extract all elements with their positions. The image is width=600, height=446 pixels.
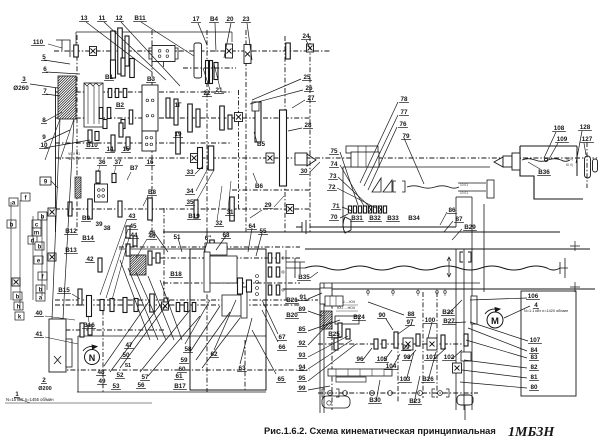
leader B35 xyxy=(310,272,318,278)
svg-text:26: 26 xyxy=(305,85,313,92)
output capsule gear xyxy=(487,180,494,198)
svg-text:40: 40 xyxy=(35,310,43,317)
pulley D260 hatched xyxy=(58,76,76,119)
tailstock body profile xyxy=(520,145,577,147)
svg-text:56: 56 xyxy=(137,382,145,389)
svg-text:52: 52 xyxy=(116,372,124,379)
svg-text:13: 13 xyxy=(80,15,88,22)
svg-text:9: 9 xyxy=(42,134,46,141)
svg-text:B15: B15 xyxy=(58,287,70,294)
apron vertical shaft 2 xyxy=(397,334,399,402)
leadscrew wavy line xyxy=(305,266,560,270)
gear 24 on vertical shaft xyxy=(286,43,291,59)
svg-text:B9: B9 xyxy=(82,215,91,222)
svg-text:M: M xyxy=(491,316,499,327)
svg-text:48: 48 xyxy=(97,369,105,376)
svg-text:20: 20 xyxy=(226,16,234,23)
shaft V centerline xyxy=(232,189,310,191)
gear cluster B1 mid bars xyxy=(108,89,112,98)
shaft VII gear 2 xyxy=(88,199,93,219)
gear block 11-12 xyxy=(111,31,116,71)
svg-text:88: 88 xyxy=(407,311,415,318)
svg-text:28: 28 xyxy=(304,122,312,129)
svg-text:47: 47 xyxy=(125,342,133,349)
apron bottom shaft centerline xyxy=(318,392,478,394)
leader B36 xyxy=(528,162,540,169)
svg-text:49: 49 xyxy=(98,378,106,385)
svg-text:50: 50 xyxy=(122,352,130,359)
feed gearbox output line xyxy=(305,248,590,250)
svg-text:25: 25 xyxy=(303,74,311,81)
shaft VIII bearing xyxy=(453,363,462,373)
svg-text:75: 75 xyxy=(330,148,338,155)
svg-text:12: 12 xyxy=(115,15,123,22)
drum 68 xyxy=(205,243,227,255)
svg-text:32: 32 xyxy=(215,220,223,227)
svg-text:106: 106 xyxy=(528,293,539,300)
vertical shaft VIII upper xyxy=(471,197,473,410)
svg-text:57: 57 xyxy=(141,374,149,381)
leader 30 xyxy=(310,162,320,172)
svg-text:6: 6 xyxy=(43,66,47,73)
gear on shaft I left xyxy=(74,45,79,57)
section symbols on feed rod xyxy=(366,290,369,293)
apron small gear row xyxy=(374,339,378,349)
svg-text:10 01: 10 01 xyxy=(460,191,468,195)
svg-text:85: 85 xyxy=(298,326,306,333)
box top leaders xyxy=(155,234,168,252)
bearing top right xyxy=(307,44,314,52)
shaft I centerline xyxy=(54,50,330,52)
countershaft pulley xyxy=(346,146,378,153)
svg-text:35: 35 xyxy=(186,199,194,206)
apron gear cluster 90 97 xyxy=(338,323,342,337)
svg-text:B21: B21 xyxy=(286,297,298,304)
svg-text:104: 104 xyxy=(386,363,397,370)
feed gearbox housing xyxy=(343,167,490,227)
shaft III gear block xyxy=(188,104,193,132)
svg-text:102: 102 xyxy=(444,354,455,361)
apron bottom jack left xyxy=(322,396,350,408)
leader 33 34 35 xyxy=(195,166,203,174)
svg-text:92: 92 xyxy=(298,340,306,347)
svg-text:15: 15 xyxy=(122,146,130,153)
leader 86 87 B29 xyxy=(440,212,447,225)
shaft VII gear 6 xyxy=(230,197,235,221)
svg-text:98: 98 xyxy=(403,354,411,361)
shaft VII gear 1 xyxy=(68,202,72,216)
svg-text:100: 100 xyxy=(425,317,436,324)
svg-text:14: 14 xyxy=(106,146,114,153)
svg-text:B29: B29 xyxy=(464,224,476,231)
svg-text:99: 99 xyxy=(298,385,306,392)
coupling brackets xyxy=(393,181,405,192)
belt lines xyxy=(52,119,60,319)
selector table vertical lines xyxy=(10,202,12,300)
shaft VII gear 5 xyxy=(194,200,198,218)
feed motor circle xyxy=(487,312,503,328)
apron worm 89 xyxy=(320,288,332,304)
svg-text:3: 3 xyxy=(22,76,26,83)
svg-text:99: 99 xyxy=(402,344,410,351)
line to leadscrew xyxy=(286,261,305,263)
norton wavy shaft xyxy=(407,186,459,188)
svg-text:1Г: 1Г xyxy=(174,102,182,109)
leadscrew right end bracket xyxy=(560,258,568,278)
headstock housing top xyxy=(76,31,232,33)
svg-text:71: 71 xyxy=(332,203,340,210)
svg-text:109: 109 xyxy=(557,136,568,143)
svg-text:36: 36 xyxy=(98,159,106,166)
svg-text:70: 70 xyxy=(330,214,338,221)
clutch B5 sleeve xyxy=(255,102,261,142)
shaft II centerline xyxy=(55,91,232,93)
gear B2 xyxy=(119,123,123,137)
svg-text:B17: B17 xyxy=(174,383,186,390)
svg-text:10: 10 xyxy=(40,142,48,149)
svg-text:29: 29 xyxy=(264,202,272,209)
worm on vertical shaft xyxy=(75,177,81,198)
drum 63 lower xyxy=(222,295,245,316)
lever 70 xyxy=(343,217,351,233)
svg-text:45: 45 xyxy=(129,223,137,230)
bracket 110 xyxy=(56,40,70,57)
svg-text:B14: B14 xyxy=(82,235,94,242)
spindle front bearing xyxy=(266,153,274,163)
vertical shaft x284 xyxy=(284,36,286,232)
svg-text:2: 2 xyxy=(42,377,46,384)
gear cluster B14 B15 xyxy=(78,289,82,305)
svg-text:d: d xyxy=(31,239,35,245)
svg-text:41: 41 xyxy=(35,331,43,338)
svg-text:33: 33 xyxy=(186,169,194,176)
svg-text:58: 58 xyxy=(184,346,192,353)
svg-text:80: 80 xyxy=(530,384,538,391)
svg-text:110: 110 xyxy=(33,39,44,46)
svg-text:B2: B2 xyxy=(116,102,125,109)
svg-text:B20: B20 xyxy=(286,312,298,319)
leader lines from top labels xyxy=(86,22,152,72)
spindle VI centerline xyxy=(55,157,597,159)
lower shaft B15 centerline xyxy=(55,299,318,301)
svg-text:95: 95 xyxy=(298,375,306,382)
svg-text:128: 128 xyxy=(580,124,591,131)
lower shaft centerline mid xyxy=(150,257,300,259)
svg-text:B16: B16 xyxy=(83,322,95,329)
drum shaft centerline xyxy=(163,282,300,284)
gear train lower shaft xyxy=(60,369,310,371)
svg-text:93: 93 xyxy=(298,352,306,359)
svg-text:103: 103 xyxy=(400,376,411,383)
svg-text:97: 97 xyxy=(406,319,414,326)
gear train housing box xyxy=(190,249,266,390)
svg-text:Ø260: Ø260 xyxy=(13,85,29,92)
vertical shaft VIII lower xyxy=(455,249,457,410)
box top line xyxy=(119,248,266,250)
drum 62 upper xyxy=(204,252,210,292)
svg-text:B5: B5 xyxy=(257,141,266,148)
svg-text:B6: B6 xyxy=(255,183,264,190)
svg-text:Рис.1.6.2. Схема кинематическа: Рис.1.6.2. Схема кинематическая принципи… xyxy=(264,426,496,436)
svg-text:64: 64 xyxy=(248,223,256,230)
svg-text:51: 51 xyxy=(173,234,181,241)
leader 25 26 27 28 xyxy=(252,79,301,100)
rack bar xyxy=(328,369,392,376)
shaft VII centerline xyxy=(55,208,310,210)
leader lines 21 22 xyxy=(203,68,210,90)
gear cluster B1 top bars xyxy=(111,60,116,78)
label 110 leader xyxy=(48,44,62,48)
svg-text:4: 4 xyxy=(534,302,538,309)
svg-text:Ч0 0 01: Ч0 0 01 xyxy=(68,157,80,161)
apron mid shaft centerline xyxy=(318,343,470,345)
electromagnetic clutch B11 xyxy=(152,46,175,62)
clutch 16 with holes xyxy=(142,131,156,151)
gear 54 xyxy=(210,240,215,254)
boxed 9 selector xyxy=(40,177,51,185)
gears right of B3 xyxy=(166,98,170,118)
gear cluster B2 lower bars xyxy=(99,108,103,119)
spindle large gear xyxy=(280,110,287,186)
lower-left vertical shaft 2 xyxy=(102,300,104,392)
svg-text:23: 23 xyxy=(242,16,250,23)
apron lower gears xyxy=(328,391,333,396)
svg-text:43: 43 xyxy=(128,213,136,220)
svg-text:89: 89 xyxy=(298,306,306,313)
svg-text:46: 46 xyxy=(148,233,156,240)
vertical shaft a xyxy=(76,35,78,232)
svg-text:65: 65 xyxy=(277,376,285,383)
pulley D200 box xyxy=(49,319,66,372)
shaft VII gear 4 xyxy=(148,198,153,220)
apron bottom jack right xyxy=(457,395,473,405)
svg-text:11: 11 xyxy=(99,15,106,22)
bearing 20 xyxy=(226,44,233,58)
gears right of drum 63 xyxy=(238,278,243,294)
lower-left vertical shaft xyxy=(206,232,208,392)
selector lever table xyxy=(9,198,18,206)
svg-text:B1: B1 xyxy=(105,74,114,81)
shaft VIII gear mid xyxy=(471,296,477,324)
svg-text:B26: B26 xyxy=(422,376,434,383)
svg-text:73: 73 xyxy=(329,173,337,180)
svg-text:21: 21 xyxy=(215,87,223,94)
svg-text:B19: B19 xyxy=(188,213,200,220)
leader fan lower left xyxy=(120,260,150,340)
svg-text:19: 19 xyxy=(174,131,182,138)
svg-text:B32: B32 xyxy=(369,215,381,222)
shaft III right gears xyxy=(220,106,225,130)
svg-text:63: 63 xyxy=(238,365,246,372)
svg-text:61: 61 xyxy=(175,373,183,380)
shaft VIII engage brackets xyxy=(460,252,471,262)
svg-text:34: 34 xyxy=(186,188,194,195)
svg-text:b: b xyxy=(38,245,42,251)
lower right vertical shaft xyxy=(244,340,246,390)
svg-text:8: 8 xyxy=(42,117,46,124)
svg-text:38: 38 xyxy=(103,225,111,232)
svg-text:22: 22 xyxy=(203,90,211,97)
svg-text:B34: B34 xyxy=(408,215,420,222)
svg-text:B11: B11 xyxy=(134,15,146,22)
reverse gears 36 37 xyxy=(96,171,100,183)
bearing 23 xyxy=(244,45,251,64)
apron vertical shaft 3 xyxy=(422,292,424,398)
leaders apron bottom labels xyxy=(362,348,372,361)
shaft VIII gear low xyxy=(461,352,471,361)
svg-text:59: 59 xyxy=(180,357,188,364)
clutch B3 with holes xyxy=(142,85,158,131)
svg-text:90: 90 xyxy=(378,312,386,319)
bearing on shaft I xyxy=(90,47,97,56)
main motor circle xyxy=(85,350,100,365)
vertical shaft x238 xyxy=(238,90,240,210)
svg-text:B3: B3 xyxy=(147,76,156,83)
engage arrows on leadscrew xyxy=(447,257,451,277)
svg-text:62: 62 xyxy=(210,351,218,358)
right edge gears 127 128 xyxy=(585,156,591,178)
svg-text:B18: B18 xyxy=(170,271,182,278)
clutch B7 with holes xyxy=(95,184,108,202)
svg-text:83: 83 xyxy=(530,354,538,361)
gear 17 on shaft I xyxy=(194,43,202,78)
svg-text:B7: B7 xyxy=(130,165,139,172)
svg-text:74: 74 xyxy=(330,161,338,168)
svg-text:b: b xyxy=(10,223,14,229)
worm gearbox 46 hatched xyxy=(130,255,146,275)
apron housing left wall xyxy=(319,283,321,413)
headstock left wall xyxy=(55,88,57,232)
svg-text:39: 39 xyxy=(95,221,103,228)
bearing lower left xyxy=(162,302,169,310)
svg-text:N: N xyxy=(89,353,96,363)
svg-text:78: 78 xyxy=(400,96,408,103)
svg-text:N=1.1 кВт n=1420 об/мин: N=1.1 кВт n=1420 об/мин xyxy=(524,309,568,313)
svg-text:66: 66 xyxy=(278,344,286,351)
svg-text:42: 42 xyxy=(86,256,94,263)
svg-text:44: 44 xyxy=(130,232,138,239)
tailstock dead center xyxy=(494,157,503,167)
shaft III centerline xyxy=(55,117,310,119)
svg-text:31: 31 xyxy=(226,209,234,216)
svg-text:B13: B13 xyxy=(65,247,77,254)
svg-text:Ю 0|: Ю 0| xyxy=(566,163,573,167)
svg-text:Ч0 0 Ч1: Ч0 0 Ч1 xyxy=(68,152,80,156)
vertical shaft c xyxy=(206,30,208,232)
svg-text:b: b xyxy=(16,295,20,301)
svg-text:72: 72 xyxy=(328,184,336,191)
svg-text:24: 24 xyxy=(302,33,310,40)
svg-text:16: 16 xyxy=(146,159,154,166)
svg-text:86: 86 xyxy=(448,207,456,214)
norton cone gears xyxy=(372,178,392,192)
pulley belt lines xyxy=(45,119,60,160)
gear under block xyxy=(88,130,92,142)
svg-text:B22: B22 xyxy=(442,309,454,316)
svg-text:b: b xyxy=(41,215,45,221)
tumbler labels leaders xyxy=(340,152,358,205)
dense small gears y300-340 xyxy=(176,303,180,312)
reverse clutch gear row xyxy=(348,206,351,213)
svg-text:B35: B35 xyxy=(298,274,310,281)
vertical shaft b xyxy=(151,30,153,232)
chuck with center xyxy=(295,153,307,165)
svg-text:B10: B10 xyxy=(86,142,98,149)
svg-text:108: 108 xyxy=(554,125,565,132)
svg-text:B27: B27 xyxy=(443,318,455,325)
svg-text:7: 7 xyxy=(43,88,47,95)
svg-text:6'': 6'' xyxy=(205,235,212,242)
svg-text:82: 82 xyxy=(530,364,538,371)
svg-text:5: 5 xyxy=(42,54,46,61)
apron housing top xyxy=(320,282,480,284)
svg-text:101: 101 xyxy=(426,354,437,361)
svg-text:127: 127 xyxy=(582,136,593,143)
svg-text:76: 76 xyxy=(399,121,407,128)
svg-text:105: 105 xyxy=(377,356,388,363)
svg-text:10 01: 10 01 xyxy=(460,183,468,187)
svg-text:27: 27 xyxy=(307,95,315,102)
leaders 43 45 44 46 xyxy=(100,219,127,295)
bearing on vertical shaft 24 xyxy=(235,113,243,122)
shaft gears y305 xyxy=(87,296,92,317)
gear B12 B13 stack xyxy=(126,226,130,238)
tumbler gear lines right xyxy=(265,250,267,300)
leaders 108 109 128 127 xyxy=(544,132,556,158)
svg-text:Ю 0|: Ю 0| xyxy=(566,157,573,161)
gear 29 leader target xyxy=(250,210,262,218)
svg-text:m: m xyxy=(34,231,39,237)
svg-text:55: 55 xyxy=(259,228,267,235)
svg-text:ЮЧ.....НОЧ: ЮЧ.....НОЧ xyxy=(337,306,356,310)
bed top line xyxy=(163,231,560,233)
svg-text:B4: B4 xyxy=(210,16,219,23)
svg-text:91: 91 xyxy=(299,294,307,301)
svg-text:1МБ3Н: 1МБ3Н xyxy=(508,425,555,440)
svg-text:87: 87 xyxy=(455,216,463,223)
leader lines left edge xyxy=(44,60,70,64)
shaft VII bearing xyxy=(287,205,294,214)
svg-text:B8: B8 xyxy=(148,189,157,196)
svg-text:84: 84 xyxy=(530,347,538,354)
leader 29 xyxy=(274,196,284,207)
vertical shaft e xyxy=(309,36,311,232)
vertical shaft x164 xyxy=(163,208,165,300)
gear 33 34 on spindle xyxy=(191,154,198,163)
pulley D200 x mark xyxy=(54,356,61,364)
svg-text:51: 51 xyxy=(125,363,131,369)
svg-text:B23: B23 xyxy=(409,398,421,405)
svg-text:B33: B33 xyxy=(387,215,399,222)
svg-text:30: 30 xyxy=(300,168,308,175)
svg-text:17: 17 xyxy=(192,16,200,23)
apron vertical shaft 4 xyxy=(436,292,438,398)
gear 21 bars xyxy=(206,61,209,84)
leaders apron left labels xyxy=(308,293,322,299)
output shaft left end xyxy=(296,220,306,234)
svg-text:B24: B24 xyxy=(353,314,365,321)
right electrical cabinet box xyxy=(521,291,576,396)
leadscrew left end xyxy=(295,258,300,278)
gear 42 xyxy=(98,258,102,272)
gear 15 xyxy=(126,137,130,149)
svg-text:53: 53 xyxy=(112,383,120,390)
leaders 76 77 78 79 xyxy=(360,102,398,183)
apron dial B25 xyxy=(335,316,359,324)
svg-text:B25: B25 xyxy=(328,331,340,338)
svg-text:60: 60 xyxy=(178,366,186,373)
apron vertical shaft 1 xyxy=(331,283,333,410)
